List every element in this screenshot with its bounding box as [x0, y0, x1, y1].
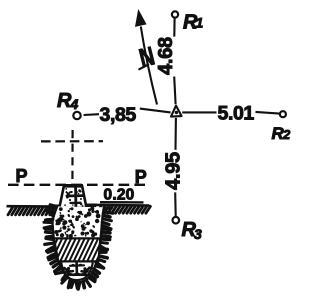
head cross mark — [67, 187, 84, 209]
reference point R4 circle — [73, 112, 80, 119]
svg-text:5.01: 5.01 — [218, 103, 255, 125]
pit outline — [53, 207, 104, 283]
ground line left — [7, 205, 58, 208]
north label N — [136, 41, 157, 73]
section line P-P dashed — [8, 184, 149, 186]
backfill tick border around pit — [44, 205, 113, 289]
label R3 — [182, 219, 203, 242]
hatched block outline — [54, 238, 100, 261]
reference point R1 circle — [172, 11, 178, 17]
monument centerline horizontal dashed — [41, 140, 103, 142]
svg-text:3: 3 — [194, 226, 202, 242]
line station to R1 (upper segment) — [173, 18, 175, 36]
svg-text:4.68: 4.68 — [155, 37, 177, 75]
north arrow — [136, 11, 157, 105]
concrete stipple — [54, 188, 100, 238]
ground junction wedge left — [51, 205, 60, 210]
station triangle — [171, 106, 182, 117]
svg-text:2: 2 — [282, 127, 291, 142]
line 5.01 to R2 — [256, 112, 280, 114]
monument centerline vertical dashed — [71, 130, 73, 184]
label R2 — [272, 124, 292, 143]
svg-text:3,85: 3,85 — [100, 104, 137, 126]
svg-text:4.95: 4.95 — [163, 152, 185, 190]
label R4 — [57, 90, 79, 112]
label R1 — [183, 12, 204, 34]
line R4 to label 3,85 — [84, 113, 99, 116]
svg-text:1: 1 — [196, 15, 204, 31]
reference point R2 circle — [280, 111, 286, 117]
line 4.95 to R3 — [174, 192, 177, 216]
line station to label 4.95 — [174, 118, 176, 150]
ground hatching left — [8, 206, 150, 214]
svg-text:P: P — [16, 166, 28, 186]
line 3,85 to station — [140, 109, 171, 113]
anchor symbol — [64, 263, 90, 275]
ground junction wedge right — [86, 204, 97, 209]
monument head — [59, 185, 86, 208]
hatched block diagonal lines — [47, 239, 107, 261]
svg-text:4: 4 — [70, 96, 79, 112]
line station to R1 (lower segment) — [174, 77, 175, 105]
underline of 0.20 — [100, 201, 144, 204]
reference point R3 circle — [173, 217, 180, 224]
line station to label 5.01 — [182, 111, 216, 113]
head x mark — [66, 192, 71, 197]
anchor chamber outline — [61, 263, 93, 280]
ground line right — [96, 204, 150, 207]
